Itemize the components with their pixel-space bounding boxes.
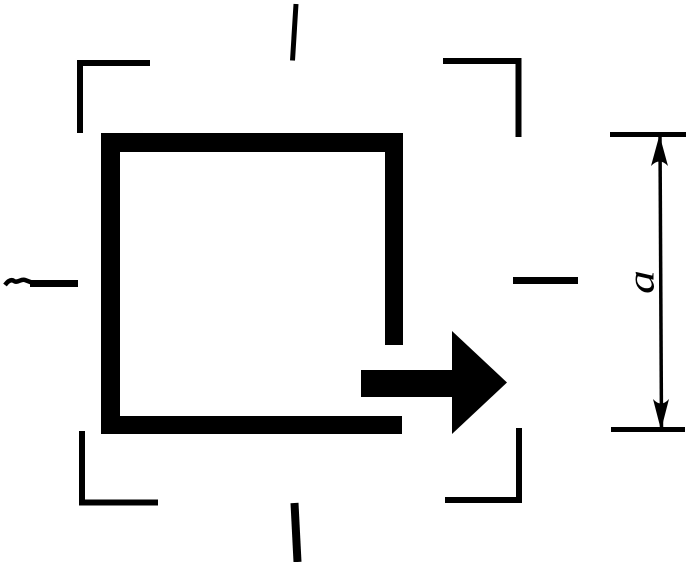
label a (dimension): [620, 252, 662, 313]
dimension arrowhead up: [651, 135, 668, 166]
dimension vertical line: [660, 137, 662, 428]
left center tick with squiggle: [5, 280, 33, 285]
square left edge: [101, 133, 120, 434]
bottom center tick: [295, 503, 298, 562]
top center tick: [293, 4, 297, 61]
square right edge (partial, gap for arrow): [385, 133, 403, 345]
dimension arrowhead down: [653, 399, 669, 430]
corner bracket bottom-right: [445, 428, 519, 500]
corner bracket top-left: [80, 63, 150, 133]
right center tick: [513, 277, 578, 284]
corner bracket top-right: [443, 61, 519, 137]
square top edge: [101, 133, 403, 152]
dimension bottom tick: [611, 427, 685, 432]
corner bracket bottom-left: [82, 431, 158, 503]
arrow head: [452, 331, 507, 434]
square bottom edge: [101, 416, 402, 434]
dimension top tick: [610, 132, 686, 137]
arrow shaft: [361, 370, 454, 397]
